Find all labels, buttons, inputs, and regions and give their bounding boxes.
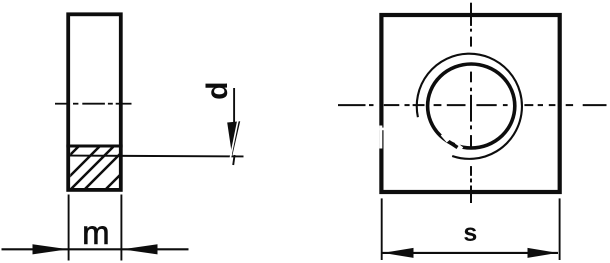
vertical centerline face view: [470, 3, 472, 203]
left edge scan artifact (thinned segment): [379, 126, 382, 149]
leader shaft d: [233, 88, 235, 126]
extension lines m: [68, 195, 70, 261]
svg-text:m: m: [82, 214, 110, 251]
arrow s right: [528, 248, 558, 258]
dimension line s: [383, 252, 559, 254]
hatching: [21, 144, 151, 190]
section top line: [66, 145, 122, 148]
extension lines s: [381, 198, 383, 260]
thread inner circle: [428, 64, 515, 148]
arrow s left: [383, 248, 414, 258]
thread line / leader line d: [70, 155, 244, 158]
arrow m right: [122, 244, 158, 254]
dimension line m: [2, 248, 189, 250]
thread outer arc: [417, 54, 522, 159]
square face view: [381, 15, 559, 192]
horizontal centerline face view: [338, 104, 607, 106]
leader arrow d: [227, 121, 240, 156]
inner circle scan breaks: [443, 134, 449, 141]
svg-text:s: s: [463, 219, 477, 247]
arrow m left: [33, 244, 69, 254]
side view rectangle (nut body section outline): [68, 14, 121, 190]
centerline left view: [55, 103, 132, 105]
svg-text:d: d: [201, 82, 234, 100]
